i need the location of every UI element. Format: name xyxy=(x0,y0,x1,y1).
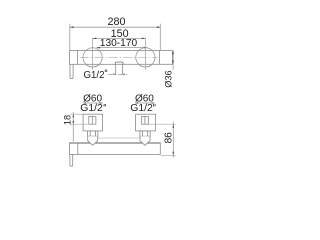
left union flange (front view) xyxy=(83,114,103,131)
dim 18 extension bottom xyxy=(70,123,88,125)
dim 18 line xyxy=(72,112,74,142)
dim Ø60 left line xyxy=(83,102,103,104)
left wall union circle (top view) xyxy=(83,48,102,67)
dim 18 extension top xyxy=(70,113,83,115)
svg-text:Ø36: Ø36 xyxy=(163,70,173,87)
left circle vertical centerline xyxy=(92,38,94,70)
svg-text:18: 18 xyxy=(63,115,73,125)
right union collar xyxy=(140,131,150,136)
lever handle (top view) xyxy=(70,64,73,78)
dim 150 line xyxy=(93,37,146,39)
right union flange (front view) xyxy=(136,114,156,131)
shower outlet legs (top view) xyxy=(115,64,117,74)
svg-text:G1/2: G1/2 xyxy=(84,70,105,81)
front tube top edge (darker) xyxy=(70,142,161,144)
double prime left xyxy=(104,104,106,106)
left union collar xyxy=(88,131,98,136)
dim 150 arrows xyxy=(93,38,146,40)
right union square divider xyxy=(144,117,146,125)
svg-text:280: 280 xyxy=(107,16,125,28)
dim Ø36 line with arrows (top view right end) xyxy=(172,50,174,69)
dim 86 extension top xyxy=(149,123,176,125)
front view left cap line xyxy=(77,143,79,154)
dim 86 line xyxy=(172,122,174,158)
double prime right xyxy=(153,104,155,106)
svg-text:130-170: 130-170 xyxy=(100,38,138,49)
svg-text:G1/2: G1/2 xyxy=(130,103,153,114)
double prime after G1/2 (top view) xyxy=(105,70,107,72)
dim 280 right extension line xyxy=(159,24,161,51)
thin line between union cones xyxy=(98,137,140,139)
right union cone/shield xyxy=(140,136,150,145)
svg-text:G1/2: G1/2 xyxy=(80,103,103,114)
dim 280 line xyxy=(70,26,161,28)
svg-text:86: 86 xyxy=(164,132,175,144)
dim 130-170 line xyxy=(96,47,147,49)
front view body tube xyxy=(70,143,161,154)
right union inner square xyxy=(141,117,148,125)
dim 86 extension bottom xyxy=(161,154,176,156)
left union cone/shield xyxy=(88,136,98,145)
left union square divider xyxy=(91,117,93,125)
top view left cap line xyxy=(77,51,79,65)
dim 130-170 arrows xyxy=(96,47,147,49)
left union inner square xyxy=(89,117,96,125)
dim 280 left extension line xyxy=(69,24,71,51)
right wall union circle (top view) xyxy=(136,48,155,67)
shower outlet feet xyxy=(113,73,115,75)
top view horizontal dashed axis xyxy=(80,57,158,59)
shower outlet dome (top view) xyxy=(115,62,123,64)
right circle vertical centerline xyxy=(144,38,146,70)
top view right cap line xyxy=(158,51,160,65)
top view body tube xyxy=(70,51,173,65)
leader dash line from G1/2 to outlet xyxy=(108,74,129,76)
dim 280 arrows xyxy=(70,26,161,28)
lever handle (front view) xyxy=(70,155,73,167)
dim Ø60 right line xyxy=(135,102,155,104)
